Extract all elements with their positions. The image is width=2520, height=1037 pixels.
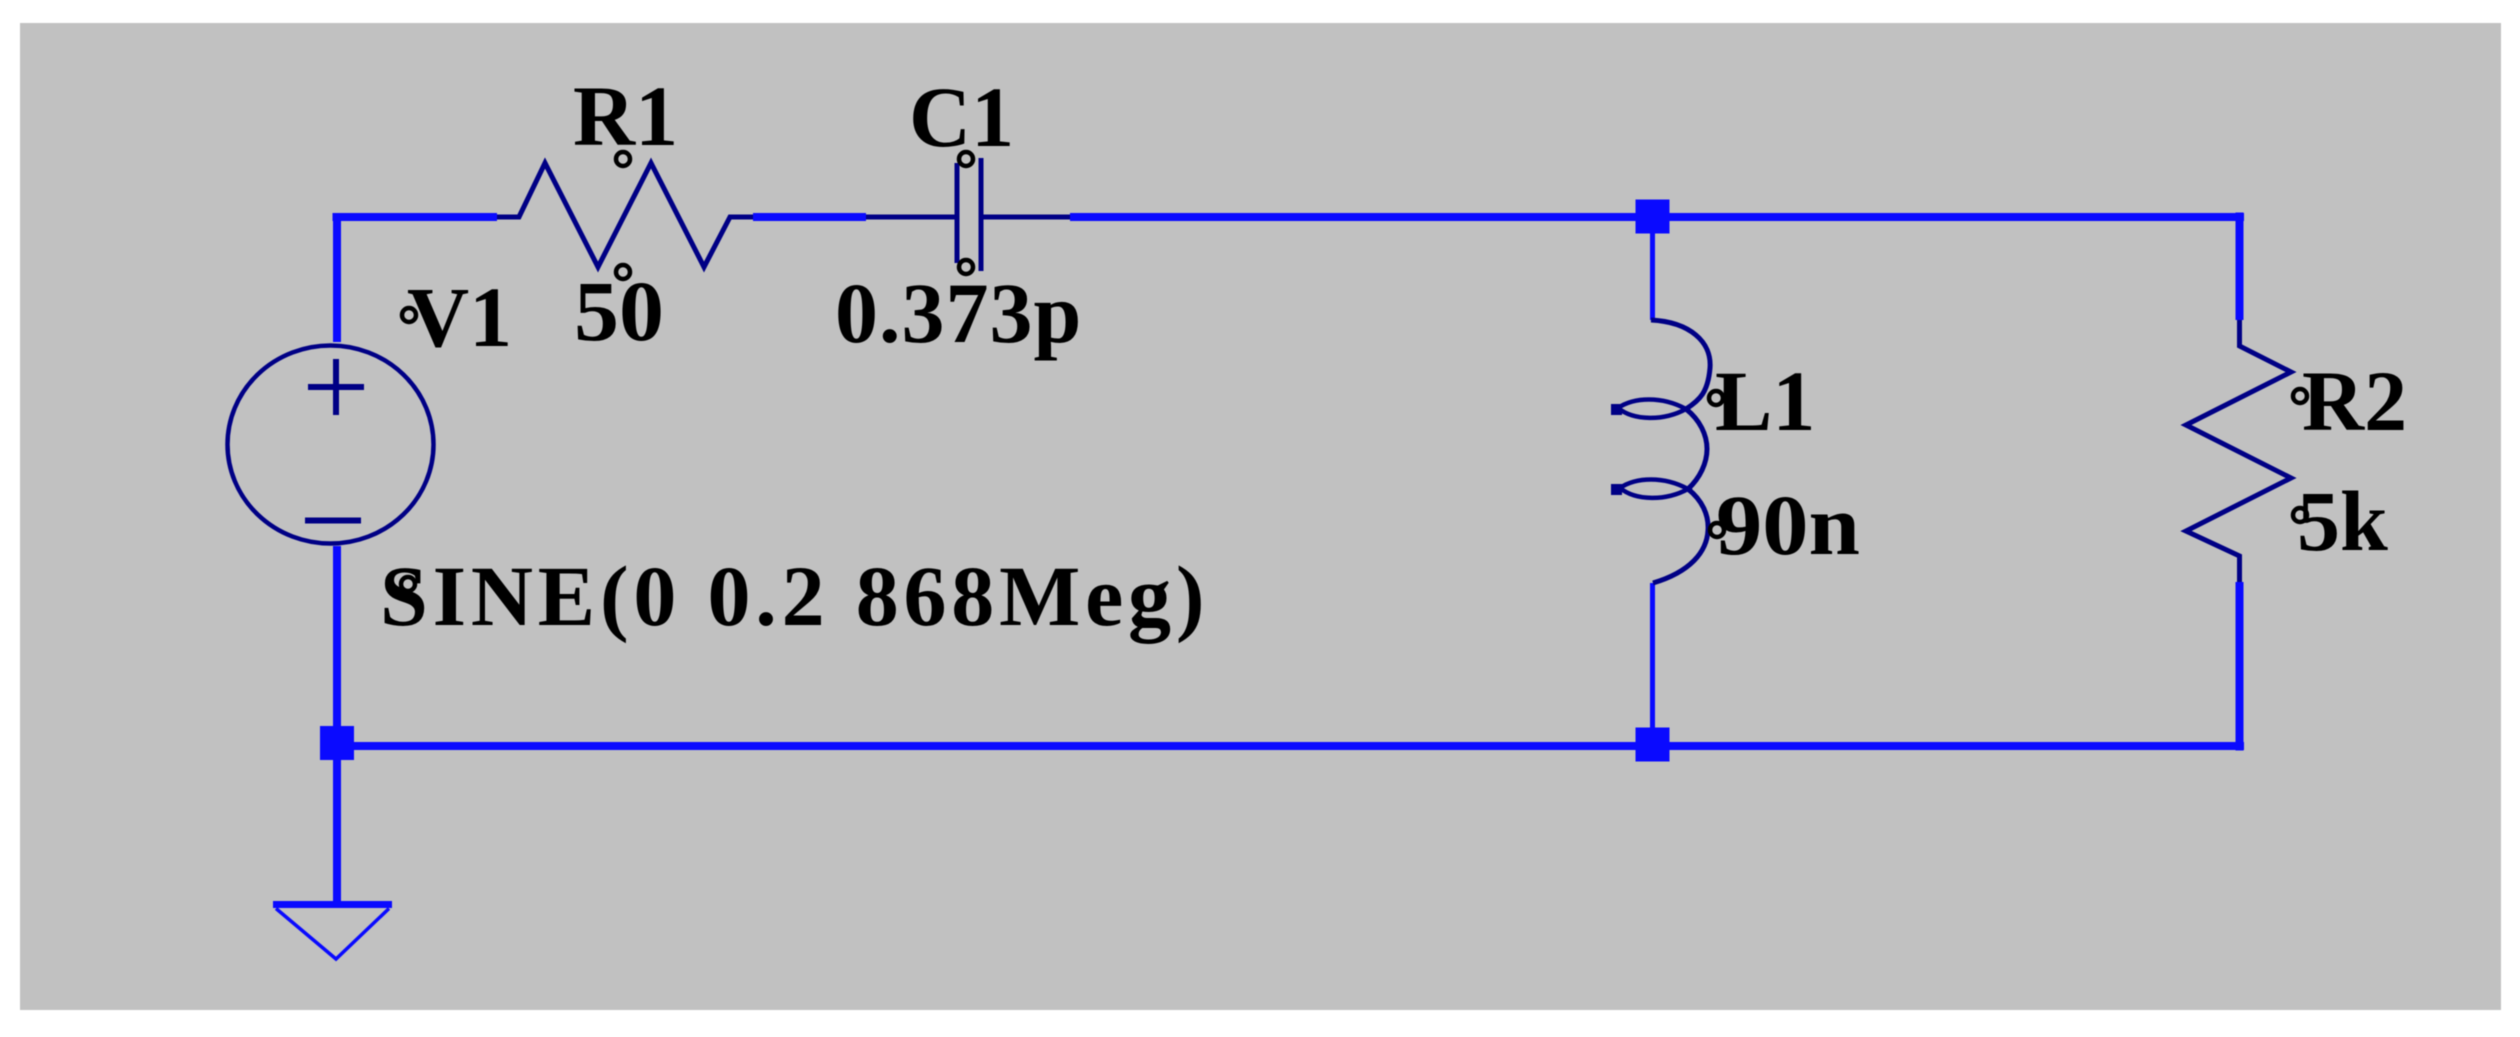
node junction bottom middle (L1 bottom) [1636,728,1670,762]
wire V1 bottom to ground node [333,546,341,751]
wire bottom horizontal [333,742,2245,750]
C1 anchor ring top [959,152,973,166]
svg-text:SINE(0 0.2 868Meg): SINE(0 0.2 868Meg) [380,548,1209,644]
V1 anchor ring [402,308,416,322]
svg-text:5k: 5k [2297,473,2388,569]
wire top-left vertical (V1 top to top wire) [333,217,341,342]
wire L1 bottom (inductor to bottom junction) [1650,583,1655,746]
wire L1 top (junction to inductor) [1650,217,1655,320]
wire top horizontal left (corner to R1) [333,213,498,221]
wire right vertical lower (R2 to bottom corner) [2236,582,2244,751]
resistor R1 [497,163,753,267]
capacitor C1 [866,158,1070,271]
resistor R2 [2186,320,2291,582]
R1 anchor ring bottom [616,265,630,279]
C1 anchor ring bottom [959,260,973,274]
wire right vertical upper (corner to R2) [2236,213,2244,321]
svg-text:90n: 90n [1716,477,1860,573]
svg-text:C1: C1 [909,69,1014,165]
node junction bottom left (ground tap) [320,726,354,760]
V1 anchor ring SINE [401,577,415,591]
svg-text:50: 50 [574,263,664,359]
svg-text:V1: V1 [407,269,512,365]
wire C1 to right corner [1070,213,2244,221]
wire ground node to ground symbol [333,746,341,905]
ground [273,905,392,960]
svg-text:R2: R2 [2302,353,2407,449]
svg-text:0.373p: 0.373p [835,265,1082,361]
L1 anchor ring value [1710,523,1724,537]
L1 anchor ring label [1709,391,1723,405]
R2 anchor ring label [2293,389,2307,403]
R1 anchor ring top [616,152,630,166]
inductor L1 [1611,320,1710,583]
node junction top (L1 tap) [1636,200,1670,234]
voltage source V1 [228,346,434,544]
wire R1 to C1 [753,213,866,221]
svg-text:L1: L1 [1715,353,1815,449]
svg-text:R1: R1 [573,68,678,164]
R2 anchor ring value [2293,508,2307,522]
